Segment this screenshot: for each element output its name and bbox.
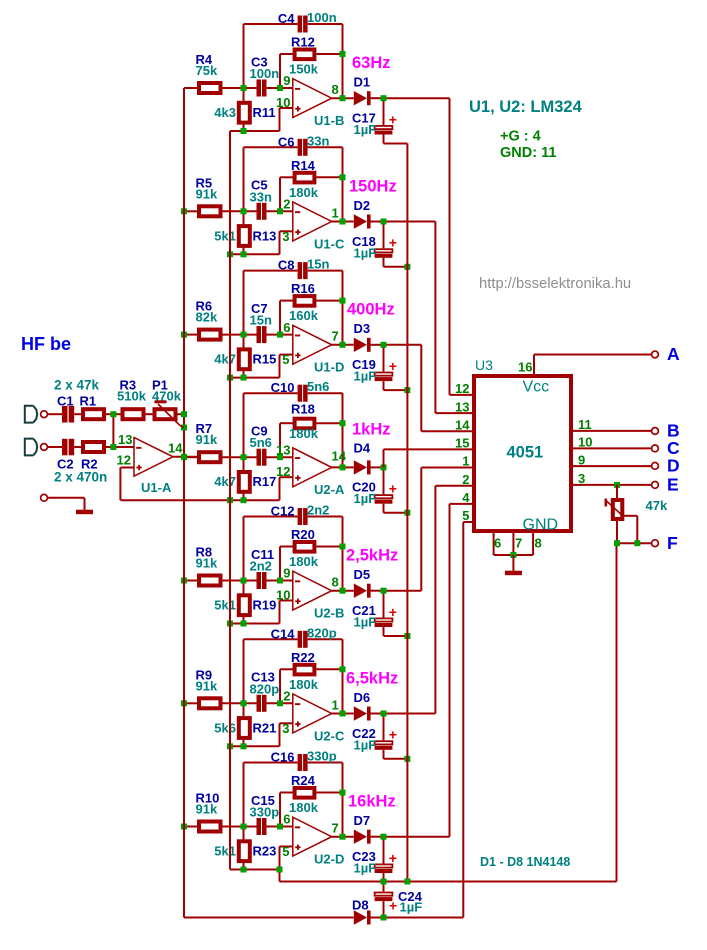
svg-text:2: 2: [462, 472, 469, 487]
svg-text:6: 6: [494, 535, 501, 550]
svg-text:1µF: 1µF: [354, 737, 377, 752]
svg-text:D8: D8: [352, 897, 369, 912]
svg-text:+G : 4: +G : 4: [500, 129, 541, 145]
svg-text:U1-C: U1-C: [314, 236, 345, 251]
svg-text:100n: 100n: [307, 10, 337, 25]
svg-text:R20: R20: [291, 527, 315, 542]
svg-text:91k: 91k: [196, 432, 218, 447]
svg-text:91k: 91k: [196, 186, 218, 201]
svg-text:http://bsselektronika.hu: http://bsselektronika.hu: [479, 276, 631, 292]
svg-text:1µF: 1µF: [400, 900, 423, 915]
svg-text:U2-C: U2-C: [314, 728, 345, 743]
svg-text:12: 12: [276, 464, 290, 479]
svg-text:180k: 180k: [289, 677, 319, 692]
svg-text:Vcc: Vcc: [523, 379, 550, 396]
svg-text:1µF: 1µF: [354, 615, 377, 630]
svg-text:2n2: 2n2: [250, 559, 272, 574]
svg-text:GND: 11: GND: 11: [500, 145, 556, 161]
svg-text:15: 15: [455, 436, 469, 451]
svg-text:R22: R22: [291, 650, 315, 665]
svg-text:D3: D3: [354, 321, 371, 336]
svg-text:5k6: 5k6: [214, 720, 236, 735]
svg-text:5: 5: [462, 508, 469, 523]
svg-text:33n: 33n: [307, 133, 329, 148]
svg-text:13: 13: [455, 399, 469, 414]
svg-text:5: 5: [282, 352, 289, 367]
svg-text:C4: C4: [278, 11, 295, 26]
svg-text:8: 8: [535, 535, 542, 550]
svg-text:13: 13: [276, 442, 290, 457]
svg-text:13: 13: [118, 432, 132, 447]
svg-text:R24: R24: [291, 773, 316, 788]
svg-text:R17: R17: [253, 474, 277, 489]
svg-text:1µF: 1µF: [354, 861, 377, 876]
svg-text:1: 1: [332, 205, 339, 220]
svg-text:5k1: 5k1: [214, 228, 236, 243]
svg-text:4: 4: [462, 490, 470, 505]
svg-text:1µF: 1µF: [354, 245, 377, 260]
svg-text:2 x 470n: 2 x 470n: [54, 470, 107, 485]
svg-text:47k: 47k: [646, 498, 668, 513]
svg-text:820p: 820p: [250, 681, 280, 696]
svg-text:+: +: [389, 727, 397, 743]
svg-text:7: 7: [332, 821, 339, 836]
svg-text:GND: GND: [523, 517, 559, 534]
svg-text:C14: C14: [271, 626, 296, 641]
svg-text:12: 12: [455, 381, 469, 396]
svg-text:510k: 510k: [117, 389, 147, 404]
svg-text:150Hz: 150Hz: [349, 177, 397, 195]
svg-text:4k7: 4k7: [214, 352, 236, 367]
svg-text:3: 3: [282, 229, 289, 244]
svg-text:U2-B: U2-B: [314, 606, 344, 621]
svg-text:C10: C10: [271, 380, 295, 395]
svg-text:U1-D: U1-D: [314, 360, 344, 375]
svg-text:470k: 470k: [152, 389, 182, 404]
svg-text:D6: D6: [354, 690, 371, 705]
svg-text:9: 9: [283, 566, 290, 581]
svg-text:4k3: 4k3: [214, 105, 236, 120]
svg-text:R23: R23: [253, 844, 277, 859]
svg-text:A: A: [667, 344, 680, 364]
svg-text:150k: 150k: [289, 62, 319, 77]
svg-text:75k: 75k: [196, 63, 218, 78]
svg-text:R14: R14: [291, 158, 316, 173]
svg-text:5k1: 5k1: [214, 598, 236, 613]
svg-text:+: +: [389, 481, 397, 497]
svg-text:R21: R21: [253, 720, 277, 735]
svg-text:7: 7: [332, 329, 339, 344]
svg-text:14: 14: [455, 417, 470, 432]
svg-text:400Hz: 400Hz: [347, 301, 395, 319]
svg-text:10: 10: [578, 435, 592, 450]
svg-text:15n: 15n: [250, 313, 272, 328]
svg-text:D1 - D8 1N4148: D1 - D8 1N4148: [480, 855, 570, 869]
svg-text:C16: C16: [271, 750, 295, 765]
svg-text:2 x 47k: 2 x 47k: [54, 378, 100, 393]
svg-text:R16: R16: [291, 281, 315, 296]
svg-text:+: +: [389, 111, 397, 127]
svg-text:+: +: [389, 898, 397, 914]
svg-text:R13: R13: [253, 228, 277, 243]
svg-text:180k: 180k: [289, 426, 319, 441]
svg-text:1µF: 1µF: [354, 491, 377, 506]
svg-text:6: 6: [283, 812, 290, 827]
svg-text:1µF: 1µF: [354, 122, 377, 137]
svg-text:C1: C1: [57, 394, 74, 409]
svg-text:91k: 91k: [196, 556, 218, 571]
svg-text:R19: R19: [253, 598, 277, 613]
svg-text:330p: 330p: [307, 749, 337, 764]
svg-text:HF be: HF be: [21, 334, 71, 354]
svg-text:U1-A: U1-A: [141, 480, 172, 495]
svg-text:330p: 330p: [250, 805, 280, 820]
svg-text:1: 1: [332, 697, 339, 712]
svg-text:+: +: [389, 604, 397, 620]
svg-text:16: 16: [518, 360, 532, 375]
svg-text:91k: 91k: [196, 802, 218, 817]
svg-text:11: 11: [578, 417, 592, 432]
svg-text:12: 12: [117, 453, 131, 468]
svg-text:U1-B: U1-B: [314, 113, 344, 128]
svg-text:+: +: [389, 358, 397, 374]
svg-text:2,5kHz: 2,5kHz: [346, 547, 398, 565]
svg-text:10: 10: [276, 587, 290, 602]
svg-text:D1: D1: [354, 75, 371, 90]
svg-text:8: 8: [332, 575, 339, 590]
svg-text:C8: C8: [278, 258, 295, 273]
svg-text:D: D: [667, 456, 680, 476]
svg-text:2: 2: [283, 197, 290, 212]
svg-text:33n: 33n: [250, 189, 272, 204]
svg-text:+: +: [389, 850, 397, 866]
svg-text:1kHz: 1kHz: [352, 421, 391, 439]
svg-text:9: 9: [578, 452, 585, 467]
svg-text:U2-D: U2-D: [314, 852, 344, 867]
svg-text:D5: D5: [354, 567, 371, 582]
svg-text:1µF: 1µF: [354, 369, 377, 384]
svg-text:9: 9: [283, 73, 290, 88]
svg-text:R12: R12: [291, 35, 315, 50]
svg-text:100n: 100n: [250, 66, 280, 81]
svg-text:5n6: 5n6: [250, 435, 272, 450]
svg-text:6: 6: [283, 320, 290, 335]
svg-text:7: 7: [515, 535, 522, 550]
svg-text:R15: R15: [253, 352, 277, 367]
svg-text:8: 8: [332, 82, 339, 97]
svg-text:C12: C12: [271, 504, 295, 519]
svg-text:180k: 180k: [289, 554, 319, 569]
svg-text:U3: U3: [475, 357, 493, 373]
svg-text:D7: D7: [354, 813, 371, 828]
svg-text:U1, U2: LM324: U1, U2: LM324: [469, 98, 583, 116]
svg-text:16kHz: 16kHz: [348, 793, 396, 811]
svg-text:3: 3: [578, 471, 585, 486]
svg-text:2: 2: [283, 689, 290, 704]
svg-text:E: E: [667, 475, 679, 495]
svg-text:820p: 820p: [307, 625, 337, 640]
svg-text:+: +: [389, 235, 397, 251]
svg-text:6,5kHz: 6,5kHz: [346, 669, 398, 687]
svg-text:63Hz: 63Hz: [352, 54, 391, 72]
svg-text:5: 5: [282, 844, 289, 859]
svg-text:82k: 82k: [196, 310, 218, 325]
svg-text:D2: D2: [354, 198, 371, 213]
svg-text:160k: 160k: [289, 308, 319, 323]
svg-text:5k1: 5k1: [214, 844, 236, 859]
svg-text:15n: 15n: [307, 257, 329, 272]
svg-text:C6: C6: [278, 134, 295, 149]
svg-text:14: 14: [168, 441, 183, 456]
svg-text:1: 1: [462, 454, 469, 469]
svg-text:D4: D4: [354, 441, 371, 456]
svg-text:91k: 91k: [196, 678, 218, 693]
svg-text:180k: 180k: [289, 800, 319, 815]
svg-text:180k: 180k: [289, 185, 319, 200]
svg-text:R18: R18: [291, 402, 315, 417]
svg-text:14: 14: [332, 449, 347, 464]
svg-text:R11: R11: [253, 105, 276, 120]
svg-text:4051: 4051: [507, 444, 544, 462]
svg-text:U2-A: U2-A: [314, 482, 345, 497]
svg-text:2n2: 2n2: [307, 503, 329, 518]
svg-text:10: 10: [276, 95, 290, 110]
svg-text:5n6: 5n6: [307, 379, 329, 394]
svg-text:3: 3: [282, 721, 289, 736]
svg-text:R1: R1: [80, 394, 97, 409]
svg-text:4k7: 4k7: [214, 474, 236, 489]
svg-text:F: F: [667, 533, 678, 553]
